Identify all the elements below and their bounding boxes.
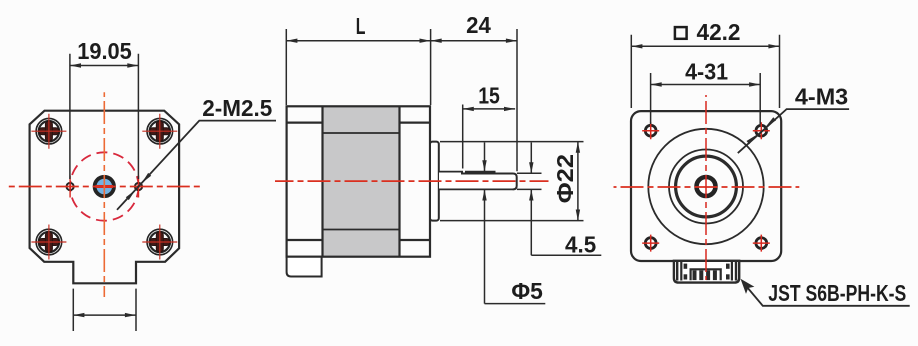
svg-text:42.2: 42.2	[697, 19, 741, 45]
svg-text:4-M3: 4-M3	[795, 84, 848, 110]
svg-text:L: L	[356, 13, 366, 39]
svg-text:19.05: 19.05	[77, 38, 132, 64]
svg-text:2-M2.5: 2-M2.5	[202, 95, 272, 121]
svg-text:4.5: 4.5	[565, 231, 596, 257]
svg-text:JST S6B-PH-K-S: JST S6B-PH-K-S	[768, 280, 906, 306]
svg-text:Φ5: Φ5	[511, 278, 543, 304]
svg-text:24: 24	[466, 12, 491, 38]
svg-text:4-31: 4-31	[685, 59, 728, 85]
svg-text:15: 15	[478, 83, 500, 109]
svg-text:Φ22: Φ22	[552, 154, 578, 203]
